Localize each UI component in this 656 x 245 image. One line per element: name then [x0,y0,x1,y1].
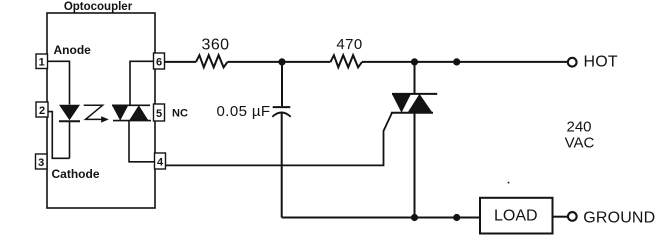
photo-triac detector [112,105,151,120]
svg-text:0.05 µF: 0.05 µF [217,103,271,120]
wire resistor470 to HOT [362,61,567,63]
wire pin6 external [165,61,197,63]
resistor 470 [331,55,363,67]
node junction cap [278,58,285,65]
pin 4 [155,153,166,169]
svg-text:NC: NC [172,108,188,120]
svg-text:GROUND: GROUND [583,209,655,226]
svg-text:Anode: Anode [54,43,92,57]
node bottom right [453,214,460,221]
triac Q1 [391,94,437,113]
wire pin2 to LED cathode [48,112,70,159]
svg-text:HOT: HOT [584,53,618,70]
pin 6 [154,53,165,69]
node triac top [411,58,418,65]
svg-text:3: 3 [38,157,44,169]
svg-text:240: 240 [566,118,591,135]
resistor 360 [196,55,228,67]
svg-text:Cathode: Cathode [52,167,100,181]
svg-text:2: 2 [39,105,45,117]
wire triac MT2 up [414,62,416,94]
wire pin1 to LED anode [47,61,70,104]
wire resistor360 to resistor470 [228,61,331,63]
LED D1 emitter [59,105,80,122]
pin 1 [36,54,48,69]
optocoupler U1 package [47,13,155,208]
wire pin4 to triac gate [166,113,393,166]
light arrow [84,105,109,122]
pin 2 [36,102,48,117]
node top right [453,58,460,65]
wire bottom [282,217,480,219]
pin 3 [36,154,48,169]
svg-text:VAC: VAC [565,135,595,152]
speck artifact [508,182,510,184]
terminal GROUND [568,209,655,226]
svg-text:6: 6 [156,56,162,68]
svg-text:470: 470 [336,36,362,53]
capacitor C1 0.05uF [272,107,290,117]
wire load to ground terminal [553,216,568,218]
svg-text:4: 4 [157,156,164,168]
svg-text:360: 360 [202,36,230,53]
capacitor C1 bottom lead [281,113,283,217]
label 240 VAC [565,118,595,151]
node triac bottom [411,214,418,221]
wire triac MT1 down [414,113,416,218]
svg-text:5: 5 [156,108,162,120]
svg-text:1: 1 [39,57,45,69]
wire photo-triac to pin4 [129,121,155,162]
wire pin6 to photo-triac [130,61,154,104]
terminal HOT [568,53,618,70]
wire LED cathode down [69,121,71,158]
load box [480,198,553,234]
pin 5 [154,104,165,121]
svg-text:Optocoupler: Optocoupler [64,1,133,13]
svg-text:LOAD: LOAD [494,208,538,225]
capacitor C1 top lead [281,62,283,106]
